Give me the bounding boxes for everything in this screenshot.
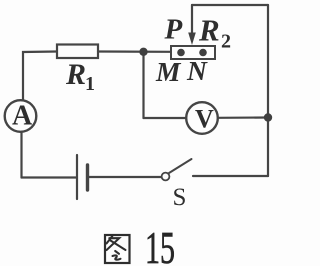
svg-text:V: V (195, 104, 214, 133)
svg-text:15: 15 (145, 223, 175, 266)
svg-text:R: R (65, 58, 86, 91)
svg-text:R: R (198, 13, 220, 48)
svg-text:2: 2 (221, 31, 231, 53)
svg-text:P: P (164, 14, 183, 46)
svg-text:1: 1 (85, 73, 95, 95)
svg-text:N: N (186, 55, 208, 86)
svg-text:S: S (173, 184, 187, 211)
svg-text:A: A (12, 101, 33, 132)
svg-text:M: M (155, 56, 182, 87)
